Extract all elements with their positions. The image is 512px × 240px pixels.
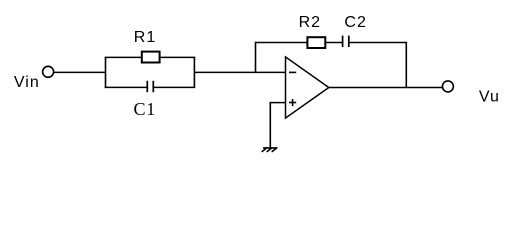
svg-text:Vin: Vin bbox=[14, 74, 40, 91]
svg-text:R1: R1 bbox=[134, 29, 156, 46]
svg-text:C2: C2 bbox=[344, 14, 366, 31]
svg-text:C1: C1 bbox=[134, 99, 157, 119]
svg-text:Vu: Vu bbox=[479, 89, 500, 106]
svg-text:R2: R2 bbox=[299, 14, 321, 31]
